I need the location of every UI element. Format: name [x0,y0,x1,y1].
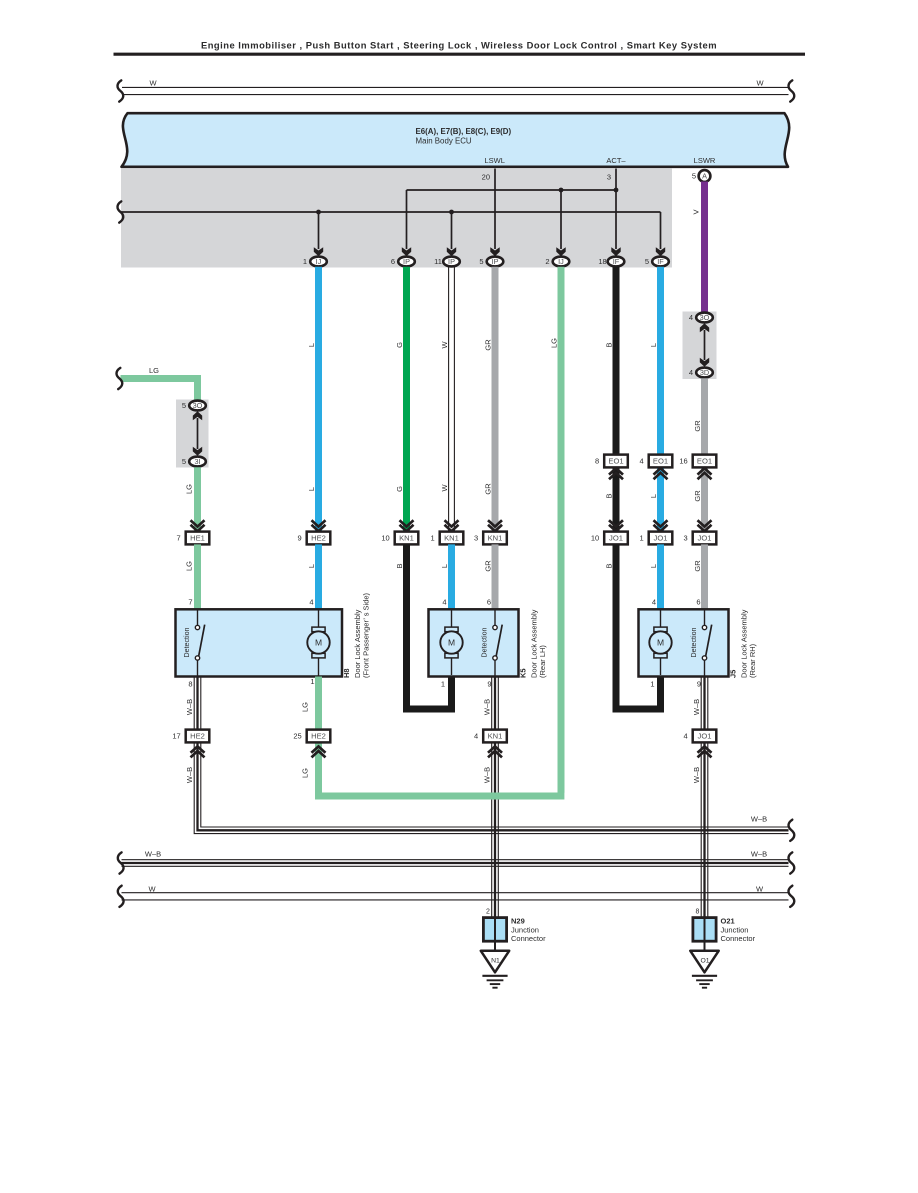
label LG top left [149,366,159,375]
wire between 3O and 3D [704,330,706,360]
chevron arrow down into JO1 pin 1 [654,520,668,531]
svg-text:B: B [604,563,613,568]
label L [440,564,449,568]
ground symbol under O1 [692,976,717,988]
label L right [649,343,658,347]
svg-text:G: G [395,342,404,348]
ground triangle N1 [481,951,509,973]
label L [649,564,658,568]
svg-text:GR: GR [693,420,702,432]
svg-text:JO1: JO1 [698,732,712,741]
svg-text:Connector: Connector [721,934,756,943]
svg-text:L: L [649,494,658,498]
svg-text:O21: O21 [721,917,735,926]
svg-text:8: 8 [696,909,700,916]
wire down to connector 5 IF [660,212,662,249]
svg-text:EO1: EO1 [697,457,712,466]
chevron arrow up into EO1 pin 4 [654,468,668,479]
connector JO1 pin 3 [684,532,717,545]
H8 name label [342,668,351,678]
svg-text:(Front Passenger’ s Side): (Front Passenger’ s Side) [362,592,371,678]
label LG [300,702,309,712]
connector 3O pin 5 (left) [182,401,206,411]
wire W-B from J5 pin 9 to JO1-4 [701,677,708,730]
label W-B [482,767,491,783]
svg-text:IP: IP [448,257,455,266]
svg-text:JO1: JO1 [609,534,623,543]
wire W bus bottom full width [122,893,789,900]
svg-text:2: 2 [545,257,549,266]
label W top left [149,79,157,88]
ground triangle O1 [690,951,718,973]
svg-text:B: B [604,342,613,347]
label W-B bus2 left [145,849,161,858]
wire LG from 3I to HE1 [194,467,201,531]
label B [604,563,613,568]
svg-text:H8: H8 [342,668,351,678]
svg-text:LG: LG [549,338,558,348]
connector HE1 pin 7 [177,532,210,545]
svg-text:W–B: W–B [185,767,194,783]
pin 2 of junction connector N29 [486,909,490,916]
break top W bus right [789,80,795,101]
svg-text:10: 10 [381,534,389,543]
connector JO1 pin 1 [640,532,673,545]
svg-text:HE1: HE1 [190,534,205,543]
J5 detection switch [702,611,711,677]
svg-text:B: B [604,493,613,498]
svg-text:M: M [448,638,455,648]
svg-text:GR: GR [693,490,702,502]
label V [692,209,701,214]
connector 3O pin 4 (right) [689,313,713,323]
label W-B bus1 [751,815,767,824]
svg-text:W–B: W–B [482,699,491,715]
connector KN1 pin 3 [474,532,507,545]
wire down to connector 2 IJ [560,190,562,249]
wire W-B from JO1-4 down to O21 [701,742,708,917]
svg-text:K5: K5 [519,668,528,678]
chevron arrow down into KN1 pin 10 [400,520,414,531]
pin number 3 [607,173,611,182]
connector HE2 pin 17 [172,730,209,743]
wire L from JO1-1 to J5 pin 4 [657,544,664,610]
svg-text:JO1: JO1 [698,534,712,543]
break at left end of y212 wire [118,201,124,222]
ECU pin label ACT- [606,156,626,165]
svg-text:4: 4 [442,598,446,607]
svg-text:5: 5 [182,401,186,410]
wire LG long from 2 IJ down [558,267,565,793]
svg-text:Detection: Detection [481,627,489,657]
break W-B bus 1 right [789,820,795,841]
svg-text:LSWR: LSWR [694,156,716,165]
arrow down into 3I [193,447,202,456]
K5 pin 4 [442,598,446,607]
svg-text:17: 17 [172,732,180,741]
wire B from JO1-10 down [616,544,661,709]
gray region around inline connector 3O/3D right [683,312,717,380]
gray region around inline connector 3O/3I left [176,400,209,468]
svg-text:3I: 3I [194,457,200,466]
label W-B bus2 right [751,849,767,858]
svg-text:7: 7 [188,598,192,607]
pin 8 of junction connector O21 [696,909,700,916]
svg-text:18: 18 [598,257,606,266]
wire W-B from K5 pin 9 to KN1-4 [492,677,499,730]
H8 motor M [307,611,329,677]
svg-text:IF: IF [613,257,620,266]
svg-text:1: 1 [441,680,445,689]
svg-text:8: 8 [188,680,192,689]
label G row2 [395,486,404,492]
svg-text:3O: 3O [700,313,710,322]
wire W from 11 IP to KN1 [449,267,455,532]
title rule [114,53,806,56]
wire from O21 to ground triangle [704,941,706,951]
chevron arrow down into JO1 pin 3 [698,520,712,531]
J5 motor M [649,611,671,676]
svg-text:1: 1 [650,680,654,689]
junction connector N29 [483,917,546,944]
label W top right [756,79,764,88]
svg-text:4: 4 [640,457,644,466]
K5 Detection label [481,627,489,657]
wire GR from KN1-3 to K5 pin 6 [492,544,499,610]
svg-text:Detection: Detection [183,627,191,657]
svg-text:JO1: JO1 [654,534,668,543]
svg-text:4: 4 [474,732,478,741]
svg-text:2: 2 [486,909,490,916]
svg-text:M: M [315,638,322,648]
H8 pin 7 [188,598,192,607]
svg-text:1: 1 [640,534,644,543]
wire down to connector 6 IP [406,190,408,249]
wire L from 1 IJ to HE2 [315,267,322,532]
K5 pin 6 [487,598,491,607]
wire segment into EO1 pin 8 [613,467,620,531]
H8 description [353,592,371,678]
label GR [483,339,492,351]
svg-text:6: 6 [696,598,700,607]
wire branch horizontal y190 (6 IP / 2 IJ / ACT-) [407,189,617,191]
svg-text:16: 16 [679,457,687,466]
svg-text:W: W [149,79,157,88]
svg-text:3D: 3D [700,368,709,377]
svg-text:KN1: KN1 [488,732,503,741]
connector EO1 pin 16 [679,455,716,468]
wire segment into EO1 pin 4 [657,467,664,531]
H8 pin 1 [310,677,314,686]
ECU pin label LSWL [484,156,504,165]
svg-text:KN1: KN1 [444,534,459,543]
svg-text:IJ: IJ [316,257,322,266]
svg-text:25: 25 [293,732,301,741]
label W bus right [756,884,764,893]
svg-text:GR: GR [483,483,492,495]
svg-text:KN1: KN1 [488,534,503,543]
wire LG from H8 pin 1 to HE2-25 [315,677,322,730]
connector IF pin 5 [645,257,669,267]
wire L from 5 IF to EO1 [657,267,664,456]
K5 description [530,609,548,678]
svg-text:LG: LG [300,768,309,778]
wire W-B bus 2 full width [122,860,789,867]
svg-text:1: 1 [303,257,307,266]
J5 description [740,609,758,678]
wire between 3O and 3I [197,418,199,449]
svg-text:IP: IP [403,257,410,266]
svg-text:Connector: Connector [511,934,546,943]
chevron arrow up into HE2 pin 17 [191,746,205,757]
label W bus left [148,884,156,893]
label W [440,341,449,349]
H8 Detection label [183,627,191,657]
wire W-B from H8 pin 8 to HE2-17 [194,677,201,730]
svg-text:W–B: W–B [692,767,701,783]
chevron arrow up into EO1 pin 16 [698,468,712,479]
connector 3D pin 4 (right) [689,368,713,378]
gray internal-wiring region [121,169,672,268]
svg-text:O1: O1 [700,958,709,965]
svg-text:4: 4 [689,313,693,322]
svg-text:6: 6 [487,598,491,607]
wire down to connector 11 IP [451,212,453,249]
J5 pin 9 [697,680,701,689]
wire GR from JO1-3 to J5 pin 6 [701,544,708,610]
wire LG from HE2-25 down and right to LG column [319,742,565,796]
label LG [300,768,309,778]
door lock assembly K5 (Rear LH) box [429,609,519,676]
svg-text:6: 6 [391,257,395,266]
K5 motor M [440,611,462,676]
connector JO1 pin 4 [684,730,717,743]
svg-text:GR: GR [483,560,492,572]
arrow into connector 5 IP [490,247,499,256]
connector IJ pin 2 [545,257,569,267]
svg-text:9: 9 [487,680,491,689]
label B [395,563,404,568]
svg-text:W: W [148,884,156,893]
junction connector O21 [693,917,756,944]
connector JO1 pin 10 [591,532,628,545]
label GR [483,560,492,572]
svg-text:G: G [395,486,404,492]
svg-text:KN1: KN1 [399,534,414,543]
break at left of LG wire [117,368,123,389]
K5 pin 9 [487,680,491,689]
wire from ACT- pin 3 down to connector 18 IF [615,169,617,250]
svg-text:N1: N1 [491,958,500,965]
door lock assembly H8 (Front Passenger Side) box [176,609,343,676]
svg-text:L: L [649,564,658,568]
label GR [693,560,702,572]
connector 3I pin 5 (left) [182,457,206,467]
title: system names [201,40,717,51]
label W-B [185,699,194,715]
junction dot at 11 IP branch [449,210,454,215]
chevron arrow down into KN1 pin 1 [445,520,459,531]
connector A pin 5 (LSWR) [692,170,710,182]
svg-text:W: W [756,79,764,88]
svg-text:HE2: HE2 [311,732,326,741]
svg-text:L: L [440,564,449,568]
svg-text:LG: LG [149,366,159,375]
label LG [549,338,558,348]
svg-text:LG: LG [184,561,193,571]
svg-text:GR: GR [483,339,492,351]
svg-text:W: W [756,884,764,893]
svg-text:20: 20 [482,173,490,182]
ECU box E6/E7/E8/E9 Main Body ECU [122,113,790,167]
break W-B bus 2 right [789,852,795,873]
label L between EO1 and JO1 [649,494,658,498]
chevron arrow up into EO1 pin 8 [609,468,623,479]
svg-text:5: 5 [182,457,186,466]
wire L from HE2 to H8 pin 4 [315,544,322,610]
svg-text:Detection: Detection [690,627,698,657]
connector EO1 pin 4 [640,455,673,468]
svg-text:IF: IF [657,257,664,266]
label G [395,342,404,348]
svg-text:4: 4 [309,598,313,607]
connector IF pin 18 [598,257,624,267]
svg-text:W–B: W–B [692,699,701,715]
connector IJ pin 1 [303,257,327,267]
break W-B bus 2 left [118,852,124,873]
svg-text:L: L [307,343,316,347]
wire W-B from KN1-4 down to N29 [492,742,499,917]
svg-text:W–B: W–B [751,849,767,858]
junction dot at 1 IJ branch [316,210,321,215]
wire B from KN1-10 down [407,544,452,709]
wire W top bus [122,87,789,94]
label L [307,343,316,347]
svg-text:L: L [649,343,658,347]
ECU pin label LSWR [694,156,716,165]
svg-text:W–B: W–B [185,699,194,715]
label GR between EO1 and JO1 [693,490,702,502]
svg-text:5: 5 [479,257,483,266]
svg-text:W: W [440,484,449,492]
arrow up into 3O left [193,411,202,420]
label L [307,564,316,568]
svg-text:GR: GR [693,560,702,572]
J5 name label [729,670,738,678]
label W-B [692,699,701,715]
H8 pin 8 [188,680,192,689]
wire GR from 5 IP to KN1 [492,267,499,532]
svg-text:Main Body ECU: Main Body ECU [416,137,472,146]
svg-text:W–B: W–B [482,767,491,783]
wire down to connector 1 IJ [318,212,320,249]
svg-text:M: M [657,638,664,648]
svg-text:EO1: EO1 [653,457,668,466]
wire GR from 3D to EO1 [701,378,708,456]
svg-text:8: 8 [595,457,599,466]
wire L from KN1-1 to K5 pin 4 [448,544,455,610]
connector HE2 pin 25 [293,730,330,743]
connector IP pin 11 [434,257,460,267]
K5 name label [519,668,528,678]
wire LG from HE1 to H8 pin 7 [194,544,201,610]
svg-text:1: 1 [310,677,314,686]
label LG [184,561,193,571]
svg-text:LSWL: LSWL [484,156,504,165]
svg-text:11: 11 [434,257,442,266]
label GR right column [693,420,702,432]
arrow up into 3O [700,323,709,332]
arrow into connector 5 IF [656,247,665,256]
junction dot at ACT- branch [614,188,619,193]
svg-text:3: 3 [474,534,478,543]
svg-text:3O: 3O [193,401,203,410]
svg-text:V: V [692,209,701,214]
wire from N29 to ground triangle [494,941,496,951]
svg-text:3: 3 [607,173,611,182]
svg-text:EO1: EO1 [608,457,623,466]
svg-text:9: 9 [298,534,302,543]
svg-text:(Rear LH): (Rear LH) [538,645,547,678]
connector KN1 pin 10 [381,532,418,545]
arrow into connector 2 IJ [556,247,565,256]
svg-text:W–B: W–B [751,815,767,824]
svg-text:N29: N29 [511,917,525,926]
svg-text:5: 5 [645,257,649,266]
label B [604,342,613,347]
wire from LSWL pin 20 down to connector 5 IP [494,169,496,250]
svg-text:LG: LG [184,484,193,494]
wire B from 18 IF to EO1 [613,267,620,456]
svg-text:J5: J5 [729,670,738,678]
connector EO1 pin 8 [595,455,628,468]
arrow into connector 1 IJ [314,247,323,256]
svg-text:HE2: HE2 [311,534,326,543]
break top W bus left [118,80,124,101]
label W-B [692,767,701,783]
svg-text:5: 5 [692,172,696,181]
label W-B [482,699,491,715]
label LG left column [184,484,193,494]
connector HE2 pin 9 [298,532,331,545]
chevron arrow down into KN1 pin 3 [488,520,502,531]
junction dot at 2 IJ branch [559,188,564,193]
chevron arrow down into HE2 pin 9 [312,520,326,531]
chevron arrow up into KN1 pin 4 [488,746,502,757]
J5 pin 4 [652,598,656,607]
H8 pin 4 [309,598,313,607]
arrow into connector 18 IF [611,247,620,256]
svg-text:4: 4 [652,598,656,607]
wire branch horizontal y212 (1 IJ / 11 IP / 5 IF) [121,211,661,213]
J5 pin 6 [696,598,700,607]
H8 detection switch [195,611,204,677]
svg-text:A: A [702,172,707,181]
K5 pin 1 [441,680,445,689]
svg-text:7: 7 [177,534,181,543]
svg-text:IP: IP [492,257,499,266]
connector KN1 pin 4 [474,730,507,743]
label W row2 [440,484,449,492]
label L row2 [307,487,316,491]
svg-text:L: L [307,564,316,568]
svg-text:4: 4 [684,732,688,741]
break W bus right [789,886,795,907]
wire W-B from HE2-17 down then right as W-B bus (elbow) [194,742,788,833]
svg-text:ACT–: ACT– [606,156,626,165]
svg-text:9: 9 [697,680,701,689]
svg-text:3: 3 [684,534,688,543]
